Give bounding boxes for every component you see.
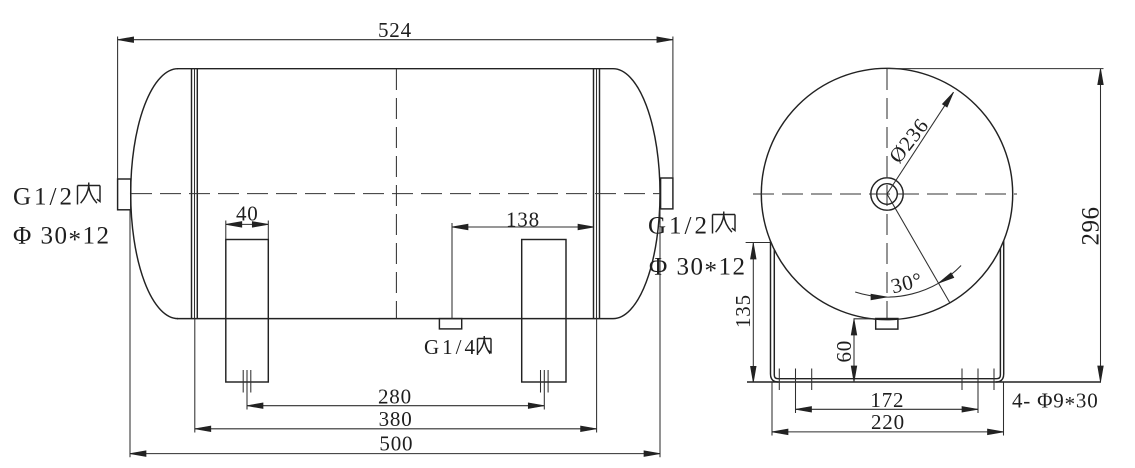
radius leader arrow [887,92,954,194]
right G1/2 port stub [661,178,673,209]
right mounting leg [522,240,566,383]
svg-text:G1/2: G1/2 [13,184,75,211]
angle dimension arc [855,266,961,298]
center port inner circle [877,184,898,205]
svg-text:220: 220 [871,410,905,434]
svg-text:135: 135 [731,294,755,328]
svg-text:60: 60 [832,340,856,363]
base ground line [747,381,1101,383]
svg-text:280: 280 [378,384,412,408]
label diameter 236 [884,114,934,168]
dimension 500 [130,209,660,457]
dimension 296 [887,69,1104,382]
center port outer circle [871,178,903,210]
drain stub front view [876,319,898,330]
tank end circle [761,68,1012,319]
saddle bracket outer left edge [771,241,779,382]
label G1/4 under drain [424,335,491,359]
dimension 60 [832,319,876,382]
dimension 280 [247,384,544,409]
label G1/2 left line1 [13,183,100,211]
tank right elliptical head [613,69,660,319]
angle arc arrow right [939,273,954,283]
vertical centerline front view [886,69,888,318]
svg-text:138: 138 [506,208,540,232]
horizontal centerline front view [753,193,1017,195]
left weld seam lines [192,69,198,319]
label G1/2 right line1 [648,212,735,240]
label Phi 30*12 right line2 [649,254,747,285]
tank left elliptical head [131,69,178,319]
label 30 degrees [888,267,925,298]
tank shell top line [177,68,613,70]
dimension 40 [226,202,268,240]
svg-text:524: 524 [378,18,412,42]
left G1/2 port stub [118,179,131,210]
dimension 220 [772,382,1004,436]
saddle bracket inner shell [774,248,1000,379]
svg-text:G1/2: G1/2 [648,213,710,240]
dimension 172 [796,388,979,413]
label 4-phi9*30 [1012,389,1099,417]
vertical centerline of tank [395,69,397,319]
dimension 380 [195,319,597,433]
label Phi 30*12 left line2 [13,223,111,254]
svg-text:Φ 30*12: Φ 30*12 [13,223,111,254]
svg-text:172: 172 [870,388,904,412]
horizontal centerline of tank [131,193,660,195]
right leg slot marks [541,370,549,393]
svg-text:G1/4: G1/4 [424,335,478,359]
dimension 135 [731,243,770,383]
svg-text:500: 500 [379,432,413,456]
base slot marks left [779,369,811,391]
angle arc arrow left [871,294,887,300]
dimension 138 [452,208,594,319]
svg-text:4- Φ9*30: 4- Φ9*30 [1012,389,1099,417]
G1/4 drain port stub [439,319,461,329]
svg-text:380: 380 [379,407,413,431]
svg-text:Φ 30*12: Φ 30*12 [649,254,747,285]
dimension 524 [118,18,673,179]
tank shell bottom line [177,318,613,320]
right weld seam lines [594,69,600,319]
svg-text:40: 40 [236,202,259,226]
left mounting leg [226,240,268,383]
saddle bracket outer right edge [996,241,1004,382]
svg-text:296: 296 [1077,207,1104,246]
base slot marks right [962,369,994,391]
left leg slot marks [243,370,251,393]
30 degree radial line [887,194,950,303]
